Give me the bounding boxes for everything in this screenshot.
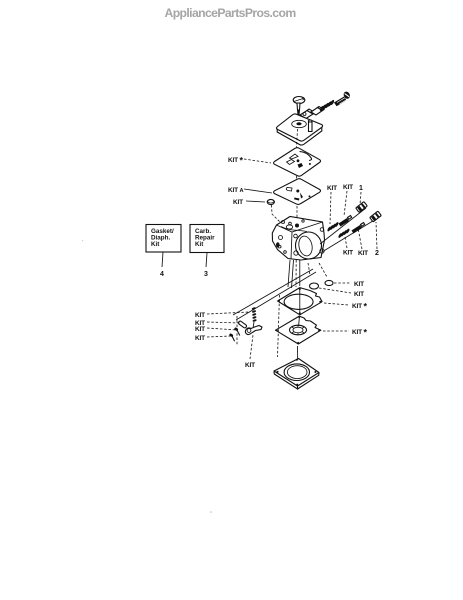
- svg-text:2: 2: [375, 250, 379, 257]
- svg-text:KIT: KIT: [343, 250, 353, 257]
- svg-text:KIT: KIT: [343, 184, 353, 191]
- svg-text:Kit: Kit: [151, 241, 160, 248]
- svg-text:KIT: KIT: [195, 312, 205, 319]
- svg-text:KIT *: KIT *: [228, 155, 243, 165]
- svg-text:AppliancePartsPros.com: AppliancePartsPros.com: [165, 6, 297, 20]
- svg-text:KIT A: KIT A: [228, 187, 243, 194]
- svg-text:KIT *: KIT *: [352, 301, 367, 311]
- svg-text:KIT: KIT: [233, 199, 243, 206]
- svg-text:KIT: KIT: [354, 291, 364, 298]
- svg-text:KIT *: KIT *: [352, 327, 367, 337]
- svg-text:KIT: KIT: [358, 250, 368, 257]
- svg-text:KIT: KIT: [195, 335, 205, 342]
- svg-text:KIT: KIT: [354, 281, 364, 288]
- svg-text:KIT: KIT: [245, 362, 255, 369]
- svg-text:4: 4: [160, 271, 164, 278]
- svg-text:1: 1: [359, 185, 363, 192]
- svg-text:KIT: KIT: [195, 326, 205, 333]
- svg-text:KIT: KIT: [327, 185, 337, 192]
- svg-text:Kit: Kit: [195, 241, 204, 248]
- svg-text:3: 3: [204, 271, 208, 278]
